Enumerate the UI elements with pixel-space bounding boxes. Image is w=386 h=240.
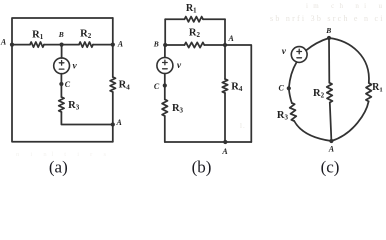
- voltage source v: [54, 58, 70, 74]
- wire R1 to B: [44, 44, 62, 46]
- node A left: [10, 43, 14, 47]
- resistor R3: [162, 99, 167, 116]
- svg-text:(a): (a): [49, 158, 68, 177]
- wire: outer loop left/top/bottom of figure a: [12, 18, 113, 45]
- svg-text:B: B: [325, 26, 331, 35]
- node A bottom right: [111, 122, 115, 126]
- svg-text:im ch ni u: im ch ni u: [306, 2, 384, 10]
- resistor R2: [185, 42, 205, 47]
- node C: [59, 82, 63, 86]
- svg-text:A: A: [328, 144, 335, 153]
- svg-text:C: C: [154, 82, 160, 91]
- svg-text:v: v: [72, 62, 77, 72]
- svg-text:v: v: [282, 47, 287, 57]
- svg-text:R1: R1: [186, 3, 197, 15]
- voltage source v: [291, 47, 307, 63]
- wire arc B to R1 (right): [329, 38, 369, 83]
- resistor R2: [79, 42, 93, 47]
- faint bleed-through text: [16, 2, 384, 158]
- wire R3 to bottom: [164, 116, 166, 142]
- wire R2 to A: [330, 103, 332, 142]
- figure a: [0, 18, 130, 177]
- figure b: [153, 3, 252, 177]
- svg-text:A: A: [116, 118, 123, 127]
- wire C to R3: [164, 86, 166, 100]
- svg-text:C: C: [65, 80, 71, 89]
- wire arc C to R3: [289, 88, 292, 103]
- wire arc R1 to A: [331, 101, 368, 141]
- svg-text:R4: R4: [119, 80, 131, 92]
- svg-text:sb nrfi 3b srch e n ci: sb nrfi 3b srch e n ci: [270, 14, 384, 23]
- resistor R2: [327, 83, 333, 103]
- svg-text:B: B: [58, 30, 64, 39]
- node A bottom: [223, 140, 227, 144]
- wire source to C: [60, 74, 62, 84]
- figure c: [277, 26, 383, 177]
- node B: [60, 43, 64, 47]
- wire loop top right: [203, 18, 225, 20]
- wire R3 to bottom node A: [61, 112, 112, 125]
- svg-text:C: C: [279, 84, 285, 93]
- wire R1 loop right riser: [224, 19, 226, 45]
- node A right: [111, 43, 115, 47]
- svg-text:v: v: [177, 61, 182, 71]
- voltage source v: [157, 58, 173, 74]
- resistor R1: [185, 17, 204, 22]
- wire R1 loop left riser: [164, 19, 166, 45]
- wire source to C: [164, 74, 166, 86]
- wire arc B to source: [306, 38, 329, 50]
- svg-text:R2: R2: [80, 28, 92, 40]
- node B: [327, 36, 331, 40]
- svg-text:A: A: [228, 34, 235, 43]
- wire center B to R2: [328, 38, 330, 83]
- node C: [287, 86, 291, 90]
- node A: [223, 43, 227, 47]
- svg-text:R3: R3: [277, 110, 289, 122]
- wire A to outer right edge: [225, 45, 251, 142]
- wire R2 to A right: [93, 44, 113, 46]
- wire arc R3 to A: [294, 121, 331, 141]
- resistor R4: [110, 77, 115, 92]
- wire loop top left: [165, 18, 184, 20]
- bottom wire: [165, 141, 252, 143]
- node C: [163, 83, 167, 87]
- resistor R4: [222, 79, 227, 93]
- wire B to R2: [62, 44, 79, 46]
- svg-text:R1: R1: [372, 82, 383, 94]
- svg-text:R1: R1: [32, 29, 44, 41]
- svg-text:(c): (c): [321, 158, 340, 177]
- wire arc source to C: [289, 62, 297, 88]
- wire B to source: [61, 45, 63, 58]
- wire B to R2: [165, 44, 184, 46]
- wire R2 to A: [204, 44, 225, 46]
- wire right edge upper: [112, 18, 114, 77]
- svg-text:R3: R3: [172, 103, 184, 115]
- resistor R1: [366, 83, 372, 101]
- svg-text:R4: R4: [231, 81, 243, 93]
- resistor R3: [59, 97, 64, 112]
- svg-text:R2: R2: [313, 88, 325, 100]
- svg-text:R2: R2: [189, 27, 201, 39]
- resistor R1: [30, 42, 44, 47]
- wire B to source: [164, 45, 166, 57]
- wire right edge lower: [112, 92, 114, 142]
- wire A down to R4: [224, 45, 226, 79]
- wire R4 to bottom: [224, 93, 226, 142]
- wire C to R3: [60, 84, 62, 97]
- svg-text:A: A: [221, 147, 228, 156]
- resistor R3: [290, 103, 297, 121]
- svg-text:B: B: [153, 39, 159, 48]
- svg-text:(b): (b): [192, 158, 212, 177]
- svg-text:R3: R3: [68, 100, 80, 112]
- wire A to R1: [12, 44, 30, 46]
- node A: [329, 139, 333, 143]
- node B: [163, 43, 167, 47]
- svg-text:A: A: [0, 37, 7, 46]
- svg-text:l.: l.: [240, 122, 246, 130]
- svg-text:A: A: [117, 40, 124, 49]
